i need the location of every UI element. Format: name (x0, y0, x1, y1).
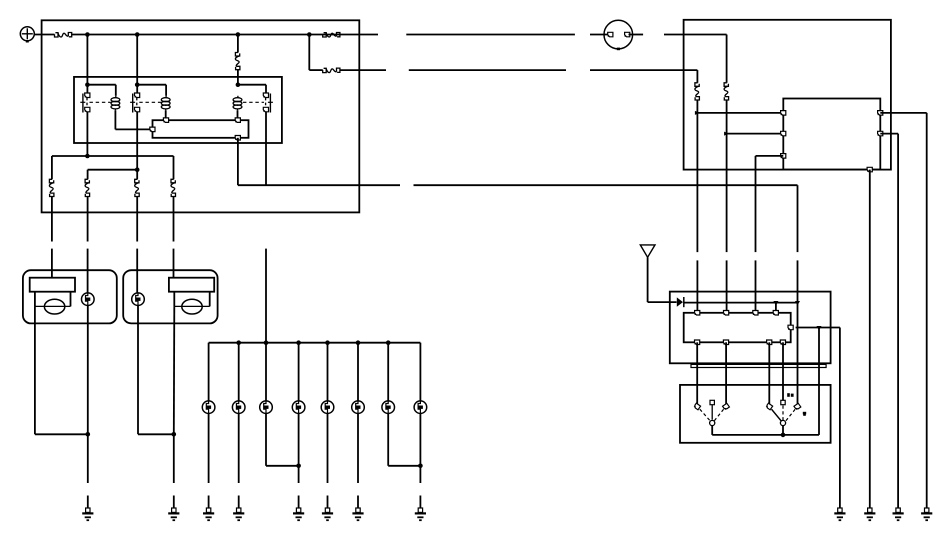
wire: keyless feed 1 down (from F9) (696, 113, 698, 313)
wire A: main hot bus y=34.5 (72, 34, 378, 36)
node: junction diode line / wire C drop (795, 301, 800, 305)
wire: park bulb R down (138, 306, 174, 435)
node: junction diode line / pin 4 stub (773, 301, 778, 305)
fuse F4 (horizontal on wire B) (323, 68, 340, 73)
wire: receiver pin4 to switch (782, 342, 784, 400)
relay R3 armature dashed link (243, 101, 264, 103)
wire: fuse F8 down to headlight R (173, 197, 175, 278)
keyless receiver unit box (670, 292, 831, 364)
wire: keyless feed 2 down (from F10) (726, 134, 728, 313)
antenna (640, 245, 676, 302)
wire A stub to connector (590, 34, 610, 36)
relay box outline (74, 77, 282, 143)
ground G6 (293, 508, 304, 520)
bulb B6 (marker light) (352, 401, 365, 414)
ground G8 (352, 508, 363, 520)
wire: fuse F7 down to park bulb R (136, 197, 138, 293)
node: junction wireA / fuse F2 stub (236, 32, 241, 37)
wire: pin 3 feed from keyless column (756, 155, 784, 157)
wire: down to ground G1 (87, 434, 89, 508)
fuse F9 (vertical) (695, 83, 700, 100)
ground G11 (864, 508, 875, 520)
ground G9 (921, 508, 932, 520)
wire: line2 to fuse F7 (136, 170, 138, 180)
headlight assembly right outline (123, 270, 217, 323)
bulb B1 (marker light) (202, 401, 215, 414)
node: junction wireA / relay1 feed (85, 32, 90, 37)
fuse F10 (vertical) (724, 83, 729, 100)
wire: bus feed from relay R3 (265, 249, 267, 343)
battery positive terminal (20, 27, 34, 43)
node: bus junction 3 (264, 340, 269, 345)
label 52 (787, 393, 793, 397)
wire: keyless feed 3 down (755, 156, 757, 313)
relay R3 junction node (236, 82, 241, 87)
ground G4 (233, 508, 244, 520)
relay R2 coil (161, 96, 170, 111)
pin: receiver right pin (788, 325, 793, 330)
wire: fused output line 2 y=169.7 (88, 170, 138, 180)
switch S1 left contact (694, 403, 701, 410)
wire: R1 coil to control unit pin (115, 110, 152, 129)
park bulb L (82, 293, 95, 306)
wire: stub to receiver pin 4 (775, 303, 777, 313)
node: junction F9 output (695, 111, 700, 115)
headlight R bulb legs (174, 292, 209, 307)
switch S2 pole (780, 420, 785, 425)
node: junction line2 / relay2 output (135, 167, 140, 172)
pin: receiver top pin 4 (773, 311, 778, 316)
bulb B4 (marker light) (292, 401, 305, 414)
connector C1 (inline, circular) (604, 20, 633, 50)
wire: receiver pin2 to switch (725, 342, 727, 404)
wire: diode output line y=302.6 (684, 302, 798, 304)
pin: receiver bottom pin 2 (723, 340, 728, 345)
node: junction bulbs 7+8 (418, 464, 423, 469)
wire: right pin 1 to ground G9 drop (880, 113, 926, 508)
wire: bulb 7 to bulb 8 column jog (388, 414, 420, 466)
pin: receiver top pin 1 (695, 311, 700, 316)
node: bus junction 2 (236, 340, 241, 345)
wire: switch common riser (818, 328, 820, 435)
node: junction line1 / relay1 output (85, 154, 90, 159)
ground G1 (82, 508, 93, 520)
pin: control unit top pin 2 (235, 118, 240, 123)
pin: integration unit left pin 2 (781, 131, 786, 136)
wire: park bulb L down (87, 306, 89, 435)
pin: integration unit left pin 1 (781, 111, 786, 116)
wire: stub to fuse F2 (237, 35, 239, 53)
label 5P (803, 412, 806, 416)
pin: integration unit right pin 1 (878, 111, 883, 116)
fuse F8 (vertical, headlight R) (171, 179, 176, 196)
switch S1 dashed throw left (700, 409, 711, 421)
wire: receiver pin3 to switch (768, 342, 770, 404)
pin: receiver bottom pin 4 (780, 340, 785, 345)
wire: bulb 8 to ground (419, 414, 421, 509)
pin: integration unit bottom pin (867, 167, 872, 172)
wire: fuse F9 to node (696, 100, 698, 113)
fuse F1 (main fuse, horizontal) (55, 33, 72, 38)
pin: control unit left pin (150, 127, 155, 132)
pin: integration unit left pin 3 (781, 154, 786, 159)
wire: fuse F6 down to park bulb L (87, 197, 89, 293)
headlight R bulb (182, 299, 202, 314)
fuse F6 (vertical) (85, 179, 90, 196)
bulb B3 (marker light) (260, 401, 273, 414)
wire C drop to receiver (797, 185, 799, 302)
headlight R connector block (169, 278, 214, 292)
relay R1 coil (111, 96, 120, 111)
integration unit box (783, 99, 880, 170)
wire: bulb 2 to ground (238, 414, 240, 509)
ground G12 (834, 508, 845, 520)
right fuse box outline (684, 20, 891, 170)
switch S2 dashed center (782, 406, 784, 421)
bulb B7 (marker light) (382, 401, 395, 414)
wire C continued after gap (414, 184, 798, 186)
relay R2 top wires (137, 85, 166, 96)
ground G2 (168, 508, 179, 520)
relay R2 armature dashed link (139, 101, 161, 103)
connector strip C2 (691, 364, 826, 367)
pin: control unit top pin 1 (163, 118, 168, 123)
pin: receiver bottom pin 1 (695, 340, 700, 345)
switch S1 dashed throw right (714, 409, 724, 421)
node: junction switch common (781, 433, 786, 438)
ground G3 (203, 508, 214, 520)
park bulb R (132, 293, 145, 306)
wire: switch common line (712, 434, 819, 436)
relay R2 contact (130, 93, 140, 113)
node: junction ground R (172, 432, 177, 437)
wire: branch drop to wire B (308, 35, 310, 71)
switch S2 left contact (766, 403, 773, 410)
wire: bulb 5 to ground (327, 414, 329, 509)
wire B middle segment (409, 69, 566, 71)
fuse F5 (vertical, headlight L hi) (49, 179, 54, 196)
relay R1 junction node (85, 82, 90, 87)
fuse F3 (horizontal on wire A) (323, 33, 340, 38)
wire: receiver right pin to ground G12 (796, 328, 840, 509)
wire: bulb 2 drop (238, 343, 240, 401)
wire: bulb 6 drop (357, 343, 359, 401)
wire: S2 pole to common (782, 426, 784, 435)
node: bus junction 6 (356, 340, 361, 345)
headlight L bulb legs (35, 292, 71, 307)
wire: R3 coil to control unit pin (237, 110, 239, 120)
wire: fuse F10 to node (726, 100, 728, 134)
switch S2 center terminal (781, 400, 785, 404)
switch S2 dashed throw right (786, 409, 796, 421)
wire A middle segment (406, 34, 575, 36)
switch S1 center terminal (710, 400, 714, 419)
fuse F7 (vertical) (135, 179, 140, 196)
node: junction right pin line / switch common (817, 326, 822, 330)
wire: relay1 feed drop (86, 35, 88, 85)
wire: fuse F5 down to headlight L (51, 197, 53, 278)
ground G7 (322, 508, 333, 520)
wire B: second hot feed y=70.1 (309, 69, 386, 71)
relay R1 armature dashed link (90, 101, 111, 103)
switch S2 engaged throw (solid) (772, 409, 782, 421)
wire B into right box (590, 70, 697, 83)
relay R3 top wires (238, 85, 266, 94)
pin: control unit bottom pin (235, 136, 240, 141)
fuse F2 (vertical) (235, 53, 240, 70)
wire: R2 contact output (136, 112, 138, 170)
wire: headlight L ground leg (35, 306, 88, 434)
ground G10 (415, 508, 426, 520)
node: junction F10 output (724, 132, 729, 136)
node: bus junction 7 (386, 340, 391, 345)
wire: fused output line 1 y=156 (52, 156, 174, 179)
wire: down to ground G2 (173, 434, 175, 508)
wire A after connector (629, 34, 644, 36)
wire: headlight R ground leg (173, 306, 176, 434)
wire: right pin 2 to ground G10 drop (880, 134, 898, 508)
wire: bulb 4 drop (298, 343, 300, 401)
wire C: control output long run y=185.2 (238, 184, 400, 186)
wire battery to fuse (34, 34, 54, 36)
wire: wire C drop continues to door switch (797, 303, 799, 404)
node: junction wireA / wireB branch (307, 32, 312, 37)
wire: bulb 5 drop (327, 343, 329, 401)
wire: R2 coil to control unit pin (165, 110, 167, 120)
wire: bulb supply bus y=342.7 (209, 342, 421, 344)
node: junction ground L (86, 432, 91, 437)
wire: F10 node to relay unit pin 2 (727, 133, 784, 135)
switch S2 right contact (794, 403, 801, 410)
wire: bulb 4 to ground (298, 414, 300, 509)
wire: bulb 1 drop (208, 343, 210, 401)
pin: receiver top pin 2 (724, 311, 729, 316)
diode D1 (677, 297, 684, 307)
bulb B2 (marker light) (232, 401, 245, 414)
wire: control unit output down (237, 138, 239, 185)
switch S1 pole (710, 420, 715, 425)
pin: receiver bottom pin 3 (767, 340, 772, 345)
wire: R1 contact output (86, 112, 88, 155)
relay R2 junction node (135, 82, 140, 87)
node: bus junction 4 (296, 340, 301, 345)
headlight assembly left outline (23, 270, 117, 323)
switch S1 right contact (723, 403, 730, 410)
wire: R3 contact output (to bulb bus) (265, 112, 267, 186)
relay R1 contact (80, 93, 90, 113)
wire: F9 node to relay unit pin 1 (697, 112, 783, 114)
node: bus junction 5 (325, 340, 330, 345)
wire A into right box (664, 35, 727, 83)
wire: bulb 1 to ground (208, 414, 210, 509)
pin: receiver top pin 3 (753, 311, 758, 316)
wire: bulb 8 drop (419, 343, 421, 401)
wire: receiver pin1 to switch (696, 342, 698, 404)
wire: bulb 3 to bulb 4 column jog (266, 414, 299, 466)
wire: bulb 3 drop (265, 343, 267, 401)
wire: S1 pole to common (711, 426, 713, 435)
bulb B8 (marker light) (414, 401, 427, 414)
door lock switch box outline (680, 385, 831, 443)
relay R3 contact (263, 93, 273, 113)
wire: bulb 6 to ground (357, 414, 359, 509)
wire: bottom pin to ground G11 (869, 170, 871, 508)
wire: relay2 feed drop (136, 35, 138, 85)
node: junction bulbs 3+4 (296, 464, 301, 469)
dashbox: left fuse/relay box outline (42, 20, 360, 212)
daytime running light control unit box (153, 120, 249, 138)
bulb B5 (marker light) (321, 401, 334, 414)
ground G10 (893, 508, 904, 520)
relay R1 top wires (87, 85, 115, 96)
wire: fuse F2 to relay3 junction (237, 70, 239, 85)
node: junction wireA / relay2 feed (135, 32, 140, 37)
headlight L bulb (44, 299, 64, 314)
headlight L connector block (30, 278, 75, 292)
relay R3 coil (233, 96, 242, 111)
wire: bulb 7 drop (387, 343, 389, 401)
receiver inner unit box (684, 313, 791, 343)
pin: integration unit right pin 2 (878, 131, 883, 136)
